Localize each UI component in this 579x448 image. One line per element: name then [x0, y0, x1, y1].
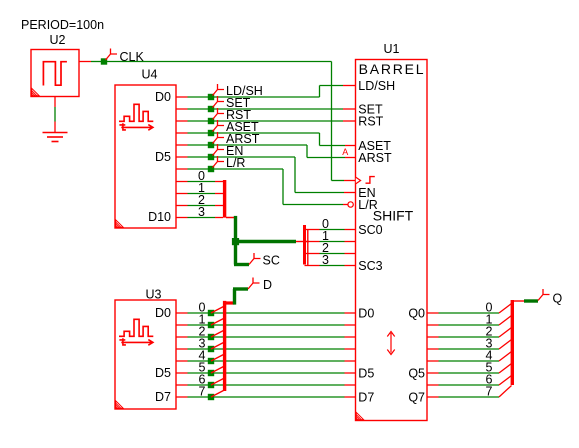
svg-text:Q7: Q7 — [408, 390, 425, 404]
digital signal generator U4 — [115, 68, 176, 228]
wire SET net — [176, 108, 356, 110]
bus entry D5 — [211, 367, 224, 374]
node D label pin — [248, 278, 272, 293]
U1 pin label D7 — [358, 390, 374, 404]
svg-text:ARST: ARST — [358, 151, 392, 165]
wire U1 Q3 to Q bus, pin 3 — [427, 337, 499, 351]
node CLK label pin — [106, 49, 145, 65]
bus SC right segment — [305, 225, 308, 266]
node Q label pin — [538, 289, 563, 306]
bus D link wire — [225, 289, 248, 305]
svg-text:D7: D7 — [155, 390, 171, 404]
wire SC2 to U1, pin 2 — [305, 241, 356, 255]
junction ASET — [208, 130, 214, 136]
U1 pin label SC3 — [358, 259, 382, 273]
wire U1 Q5 to Q bus, pin 5 — [427, 361, 499, 375]
wire U3 D2 to U1 D2 net, pin 2 — [176, 325, 356, 339]
svg-text:RST: RST — [358, 114, 383, 128]
wire U1 Q7 to Q bus, pin 7 — [427, 385, 499, 399]
wire U1 Q1 to Q bus, pin 1 — [427, 313, 499, 327]
wire U2 output to CLK junction — [79, 61, 101, 63]
U1 pin label RST — [358, 114, 383, 128]
svg-text:U2: U2 — [50, 33, 66, 47]
ground — [43, 133, 68, 142]
svg-text:Q5: Q5 — [408, 366, 425, 380]
node ASET label pin — [213, 120, 260, 134]
value label PERIOD=100n — [21, 18, 104, 32]
wire U1 Q6 to Q bus, pin 6 — [427, 373, 499, 387]
junction ARST — [208, 142, 214, 148]
junction D4 — [208, 358, 214, 364]
U1 pin label ASET — [358, 139, 391, 153]
svg-text:Q: Q — [553, 292, 563, 306]
U1 pin label Q5 — [408, 366, 425, 380]
svg-text:3: 3 — [198, 205, 205, 219]
svg-text:Q0: Q0 — [408, 306, 425, 320]
wire SC1 to U1, pin 1 — [305, 229, 356, 243]
node ARST label pin — [213, 132, 260, 146]
wire U2 to ground — [54, 97, 56, 133]
wire U1 Q0 to Q bus, pin 0 — [427, 301, 499, 315]
bus entry D7 — [211, 391, 224, 398]
node SET label pin — [213, 96, 251, 110]
wire U3 D0 to U1 D0 net, pin 0 — [176, 301, 356, 315]
junction CLK node — [101, 58, 107, 64]
svg-text:D5: D5 — [155, 150, 171, 164]
svg-text:D0: D0 — [155, 306, 171, 320]
junction D2 — [208, 334, 214, 340]
junction D5 — [208, 370, 214, 376]
svg-text:D5: D5 — [358, 366, 374, 380]
bus entry Q1 — [499, 316, 512, 326]
U1 pin label D0 — [358, 306, 374, 320]
node LD/SH label pin — [213, 84, 263, 98]
junction SET — [208, 106, 214, 112]
clock source U2 — [31, 33, 79, 97]
wire U3 D1 to U1 D1 net, pin 1 — [176, 313, 356, 327]
U1 pin label Q0 — [408, 306, 425, 320]
wire U4 D9 to SC bus, pin 2 — [176, 193, 223, 207]
U1 pin label L/R — [358, 198, 377, 212]
wire L/R net — [176, 169, 348, 205]
bus entry D2 — [211, 331, 224, 338]
svg-text:SC3: SC3 — [358, 259, 382, 273]
U1 asynchronous marker A — [342, 147, 348, 157]
svg-text:BARREL: BARREL — [359, 61, 426, 77]
junction LD/SH — [208, 94, 214, 100]
junction D3 — [208, 346, 214, 352]
node RST label pin — [213, 108, 252, 122]
bus Q link wire — [512, 300, 538, 302]
wire U3 D4 to U1 D4 net, pin 4 — [176, 349, 356, 363]
svg-text:U1: U1 — [384, 42, 400, 56]
wire U1 Q4 to Q bus, pin 4 — [427, 349, 499, 363]
bus D vertical segment — [223, 301, 226, 391]
U1 shift direction arrow — [387, 332, 394, 355]
svg-text:D5: D5 — [155, 366, 171, 380]
wire LD/SH net — [176, 86, 356, 98]
svg-text:PERIOD=100n: PERIOD=100n — [21, 18, 104, 32]
svg-text:SC: SC — [263, 254, 280, 268]
wire ARST net — [176, 145, 356, 158]
svg-text:D0: D0 — [358, 306, 374, 320]
U1 pin label Q7 — [408, 390, 425, 404]
wire U1 Q2 to Q bus, pin 2 — [427, 325, 499, 339]
junction D6 — [208, 382, 214, 388]
U1 pin label LD/SH — [358, 79, 395, 93]
svg-text:L/R: L/R — [226, 156, 245, 170]
junction D1 — [208, 322, 214, 328]
junction RST — [208, 118, 214, 124]
wire EN net — [176, 157, 356, 193]
bus entry Q3 — [499, 340, 512, 350]
digital signal generator U3 — [115, 288, 176, 410]
svg-text:L/R: L/R — [358, 198, 377, 212]
bus entry Q6 — [499, 376, 512, 386]
bus entry D6 — [211, 379, 224, 386]
bus entry D4 — [211, 355, 224, 362]
wire U3 D7 to U1 D7 net, pin 7 — [176, 385, 356, 399]
bus entry Q2 — [499, 328, 512, 338]
U1 pin label EN — [358, 186, 375, 200]
wire U3 D5 to U1 D5 net, pin 5 — [176, 361, 356, 375]
node L/R label pin — [213, 156, 246, 170]
svg-text:D10: D10 — [148, 210, 171, 224]
wire U4 D7 to SC bus, pin 0 — [176, 169, 223, 183]
bus entry D3 — [211, 343, 224, 350]
U1 pin label D5 — [358, 366, 374, 380]
U1 pin label SC0 — [358, 223, 382, 237]
wire SC0 to U1, pin 0 — [305, 217, 356, 231]
U1 pin label ARST — [358, 151, 392, 165]
bus entry Q7 — [499, 386, 512, 398]
bus SC link wire — [226, 216, 309, 265]
bus entry Q0 — [499, 304, 512, 314]
U1 clock pin edge-trigger arrow — [356, 177, 361, 184]
svg-text:A: A — [342, 147, 348, 157]
svg-text:LD/SH: LD/SH — [358, 79, 395, 93]
bus entry D0 — [211, 307, 224, 314]
U1 pin label SET — [358, 102, 383, 116]
node SC label pin — [234, 253, 280, 268]
wire ASET net — [176, 133, 356, 146]
wire U4 D8 to SC bus, pin 1 — [176, 181, 223, 195]
bus SC left segment — [223, 180, 226, 218]
svg-text:7: 7 — [486, 385, 493, 399]
wire U3 D6 to U1 D6 net, pin 6 — [176, 373, 356, 387]
junction D0 — [208, 310, 214, 316]
junction EN — [208, 154, 214, 160]
bus entry D1 — [211, 319, 224, 326]
wire SC3 to U1, pin 3 — [305, 253, 356, 267]
U1 rising edge symbol — [366, 177, 375, 184]
svg-text:D0: D0 — [155, 90, 171, 104]
bus Q vertical segment — [511, 300, 514, 385]
svg-text:3: 3 — [322, 253, 329, 267]
wire CLK net to U1 clock pin — [107, 62, 356, 181]
svg-text:7: 7 — [199, 385, 206, 399]
node EN label pin — [213, 144, 244, 158]
svg-text:SC0: SC0 — [358, 223, 382, 237]
wire U4 D10 to SC bus, pin 3 — [176, 205, 223, 219]
bus entry Q5 — [499, 364, 512, 374]
barrel shifter U1 — [356, 42, 428, 421]
junction D7 — [208, 394, 214, 400]
svg-text:D7: D7 — [358, 390, 374, 404]
bus entry Q4 — [499, 352, 512, 362]
wire RST net — [176, 120, 356, 122]
junction L/R — [208, 166, 214, 172]
svg-text:D: D — [263, 278, 272, 292]
svg-text:SHIFT: SHIFT — [373, 208, 414, 224]
wire U3 D3 to U1 D3 net, pin 3 — [176, 337, 356, 351]
svg-text:U4: U4 — [142, 68, 158, 82]
U1 L/R inversion bubble — [348, 202, 353, 207]
